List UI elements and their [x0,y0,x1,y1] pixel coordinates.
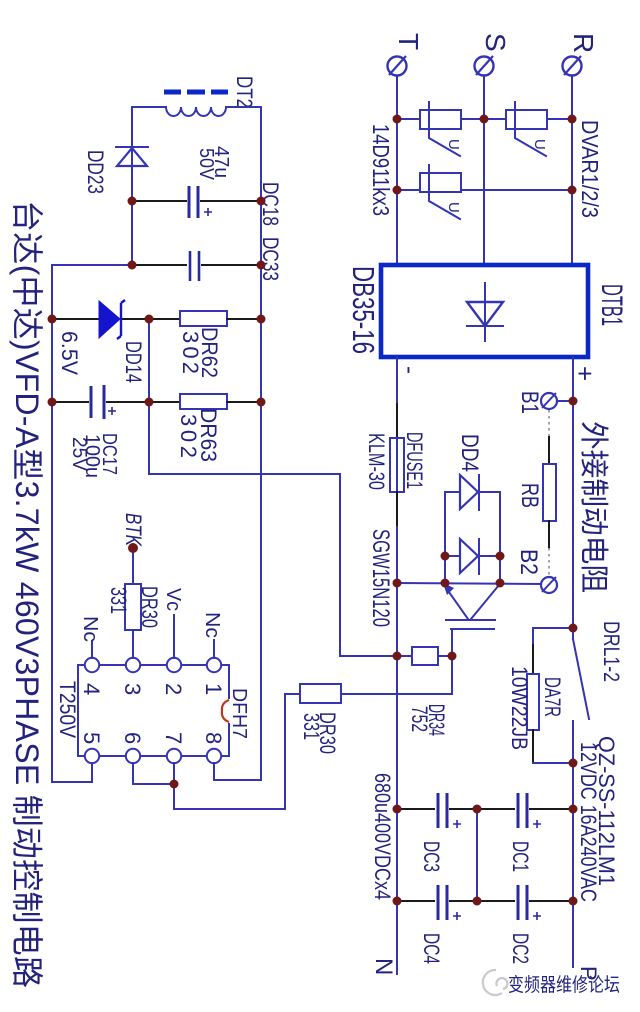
svg-text:10W22JB: 10W22JB [507,666,532,750]
fuse DFUSE1 KLM-30 [390,438,404,492]
relay socket coil mark red arc [222,700,229,722]
svg-text:U: U [445,202,462,213]
wire R phase column [571,76,573,265]
junction DD4 left bottom [441,579,450,588]
wire cap row 2 middle lead [450,900,514,902]
inductor DT2 winding [166,107,226,116]
junction cap row1 mid [473,805,482,814]
pin 3 [126,658,140,672]
bridge diode symbol [467,283,503,341]
wire pin 8 to right rail [214,763,261,780]
diode DD4 lower [460,539,479,574]
junction cap row1 left [393,805,402,814]
relay socket coil mark gap [227,699,230,723]
fuse DFUSE1 top lead [396,404,398,438]
wire DT2 left to DD23 [132,107,166,169]
relay contact fixed stub [572,721,574,737]
svg-text:DB35-16: DB35-16 [346,266,381,354]
capacitor DC18 47u 50V [189,186,212,218]
junction DRL top [569,624,578,633]
wire cap row 1 left lead [397,808,434,810]
transistor IGBT emitter slant with arrow [443,583,468,619]
transistor IGBT body bar [446,619,495,621]
svg-text:DA7R: DA7R [540,677,565,717]
svg-text:14D911kx3: 14D911kx3 [368,124,394,216]
wire pin 7 stub [173,763,175,784]
resistor DAR bottom lead [532,730,534,763]
junction DD4 left mid [441,552,450,561]
varistor DVAR3 [420,165,462,219]
pin 4 [85,658,99,672]
wire DAR bottom branch [533,762,573,764]
svg-text:R: R [568,33,599,53]
svg-text:DC2: DC2 [508,933,533,964]
junction cap row2 left [393,897,402,906]
fuse DFUSE1 bottom lead [396,492,398,527]
svg-text:S: S [480,33,511,52]
capacitor DC18 right lead [201,200,261,202]
pin 5 [85,749,99,763]
junction DC33 left [128,261,137,270]
resistor DR63 right lead [227,401,261,403]
zener DD14 right lead [123,318,149,320]
zener DD14 left lead [52,318,98,320]
varistor DVAR1 [420,102,462,156]
capacitor DC33 right lead [202,264,261,266]
pin 8 [207,749,221,763]
capacitor DC2 [518,885,541,920]
junction DD4 right bottom [496,579,505,588]
resistor DR30 socket bottom lead [132,630,134,658]
junction DD4 right mid [496,552,505,561]
svg-text:50V: 50V [195,148,217,181]
pin 6 [126,749,140,763]
node T terminal [388,56,407,76]
pin 7 [167,749,181,763]
svg-text:U: U [531,139,548,150]
wire DD4 left branch [444,492,446,583]
svg-text:302: 302 [176,414,201,458]
zener DD14 6.5V [99,300,125,339]
svg-text:DTB1: DTB1 [595,284,628,326]
svg-text:302: 302 [178,331,203,374]
node S terminal [475,56,494,76]
wire cap row 2 right lead [530,900,573,902]
svg-text:DC33: DC33 [258,237,283,281]
wire RB top lead [548,437,550,464]
svg-text:680u400VDCx4: 680u400VDCx4 [370,773,395,900]
svg-text:T: T [393,33,424,50]
svg-text:DC4: DC4 [419,933,444,964]
wire B2 dotted external [548,548,550,576]
resistor DR62 left lead [149,318,180,320]
svg-text:12VDC 16A240VAC: 12VDC 16A240VAC [576,742,601,902]
wire DR30 row to gate node [341,693,452,695]
wire B1 dotted external [548,410,550,437]
wire minus bus lower [396,527,398,974]
svg-text:U: U [445,139,462,150]
pin 1 [207,658,221,672]
svg-text:KLM-30: KLM-30 [364,433,389,490]
svg-text:-: - [396,366,423,374]
junction DR62 right [257,315,266,324]
svg-text:变频器维修论坛: 变频器维修论坛 [508,974,620,996]
wire left rail top [52,265,132,782]
junction DC17 left [48,398,57,407]
wire emitter rail [397,583,541,584]
wire pin 2 stub [173,615,175,658]
svg-text:B1: B1 [516,391,543,414]
junction DD14 cathode [145,315,154,324]
resistor DR34 left lead [397,655,412,657]
junction cap row1 right [569,805,578,814]
wire varistor row 1 [397,118,572,120]
svg-text:N: N [370,958,397,975]
wire IGBT gate [451,630,453,694]
resistor DR30 331 socket [125,584,141,630]
svg-text:Vc: Vc [162,588,184,611]
junction DC18 right [257,197,266,206]
svg-text:1: 1 [201,683,226,695]
wire cap row 2 left lead [397,900,434,902]
svg-text:2: 2 [161,683,186,695]
wire cap row 1 middle lead [450,808,514,810]
svg-text:Nc: Nc [79,616,101,642]
svg-text:DC1: DC1 [508,841,533,872]
rectifier bridge DTB1 DB35-16 [381,265,588,357]
wire pin 5 to left rail [52,763,92,782]
node BTK [132,548,134,584]
diode DD23 [116,147,148,166]
svg-text:外接制动电阻: 外接制动电阻 [577,421,610,593]
node R terminal [563,56,582,76]
node B2 terminal [541,577,557,593]
wire DD23 anode down [131,169,133,265]
wire plus bus upper [572,357,574,639]
node B1 terminal [541,393,557,409]
wire varistor row 2 [397,189,572,191]
wire DD4 bottom row [445,555,500,557]
wire plus bus lower [572,737,574,967]
svg-text:7: 7 [161,732,186,744]
svg-text:DFH7: DFH7 [228,688,250,739]
resistor DR34 752 [412,647,438,665]
wire pin 6 stub [133,763,174,784]
transistor IGBT collector slant [471,585,499,619]
wire minus bus top [396,357,398,404]
pin 2 [167,658,181,672]
capacitor DC3 [438,793,461,828]
svg-text:DT2: DT2 [232,76,257,108]
junction pins 6 7 [170,780,179,789]
resistor DR63 left lead [149,401,180,403]
svg-text:DFUSE1: DFUSE1 [402,432,427,489]
svg-text:B2: B2 [515,549,542,575]
svg-text:DD4: DD4 [456,434,483,472]
junction R row2 [568,186,577,195]
svg-text:8: 8 [201,732,226,744]
junction DD14 anode [48,315,57,324]
capacitor DC1 [518,793,541,828]
svg-text:DD14: DD14 [121,341,146,383]
capacitor DC33 [190,251,199,281]
capacitor DC18 left lead [132,200,186,202]
resistor DR30 bottom left lead [285,693,300,695]
junction BTK [128,543,138,553]
capacitor DC4 [438,885,461,920]
svg-text:台达(中达)VFD-A型3.7kW 460V3PHASE 制: 台达(中达)VFD-A型3.7kW 460V3PHASE 制动控制电路 [9,200,45,988]
resistor DR30 331 bottom [300,684,341,703]
wire S phase column [483,76,485,265]
wire pin 4 stub [91,641,93,658]
capacitor DC17 100u 25V [91,385,116,419]
junction DR63 right [257,398,266,407]
junction T row1 [393,115,402,124]
junction cap row2 mid [473,897,482,906]
resistor DR34 right lead [438,655,452,657]
svg-text:6.5V: 6.5V [57,331,82,375]
svg-text:331: 331 [106,587,131,614]
wire DAR top branch [533,628,573,645]
junction B1 plus [569,397,578,406]
resistor DR62 302 [180,311,227,326]
wire B1 to plus bus [557,400,573,402]
svg-text:RB: RB [516,483,543,508]
svg-text:SGW15N120: SGW15N120 [367,529,394,627]
junction emitter minus [393,579,402,588]
junction R row1 [568,115,577,124]
svg-text:3: 3 [120,683,145,695]
wire DD4 right branch [499,492,501,583]
wire RB bottom lead [548,521,550,548]
junction DC33 right [257,261,266,270]
junction DC17 right [145,398,154,407]
diode DD4 upper [460,475,479,510]
capacitor DC17 right lead [107,401,149,403]
svg-text:331: 331 [299,713,324,740]
junction cap row2 right [569,897,578,906]
svg-text:25V: 25V [68,437,90,472]
junction DR34 right gate [448,652,457,661]
wire T phase column [396,76,398,265]
svg-text:DC3: DC3 [419,841,444,872]
svg-text:DD23: DD23 [83,150,108,194]
svg-text:DVAR1/2/3: DVAR1/2/3 [577,120,603,218]
junction DR34 left [393,652,402,661]
transistor IGBT gate bar [451,628,494,630]
svg-text:+: + [570,366,600,381]
relay contact DRL1-2 blade [573,639,589,719]
wire cap bank midpoint tie [476,809,478,901]
resistor DAR top lead [532,645,534,674]
svg-text:6: 6 [120,732,145,744]
wire zener node to gate return [149,319,397,656]
junction DAR bottom [569,759,578,768]
wire DD4 top row [445,491,500,493]
svg-text:5: 5 [79,732,104,744]
wire pin 1 stub [213,640,215,658]
svg-text:Nc: Nc [201,612,223,638]
relay socket DFH7 body [78,665,229,756]
svg-text:DR30: DR30 [137,586,162,628]
svg-text:T250V: T250V [55,681,80,738]
junction T row2 [393,186,402,195]
wire cap row 1 right lead [530,808,573,810]
capacitor DC17 left lead [52,401,88,403]
resistor RB [543,464,556,521]
svg-text:4: 4 [79,683,104,695]
junction S row1 [480,115,489,124]
inductor DT2 core dashes [164,90,228,95]
resistor DR62 right lead [227,318,261,320]
wire DT2 right down [226,106,261,108]
svg-text:DRL1-2: DRL1-2 [599,621,624,682]
wire right rail x261 [260,107,262,780]
resistor DAR 10W22JB [527,674,539,730]
wire pins 6 7 to DR30 [174,694,285,809]
watermark logo swirl [483,970,508,995]
capacitor DC33 left lead [132,264,186,266]
svg-text:BTK: BTK [121,513,146,547]
resistor DR63 302 [180,394,227,409]
svg-text:752: 752 [407,706,432,732]
junction DC18 left [128,197,137,206]
varistor DVAR2 [506,102,548,156]
